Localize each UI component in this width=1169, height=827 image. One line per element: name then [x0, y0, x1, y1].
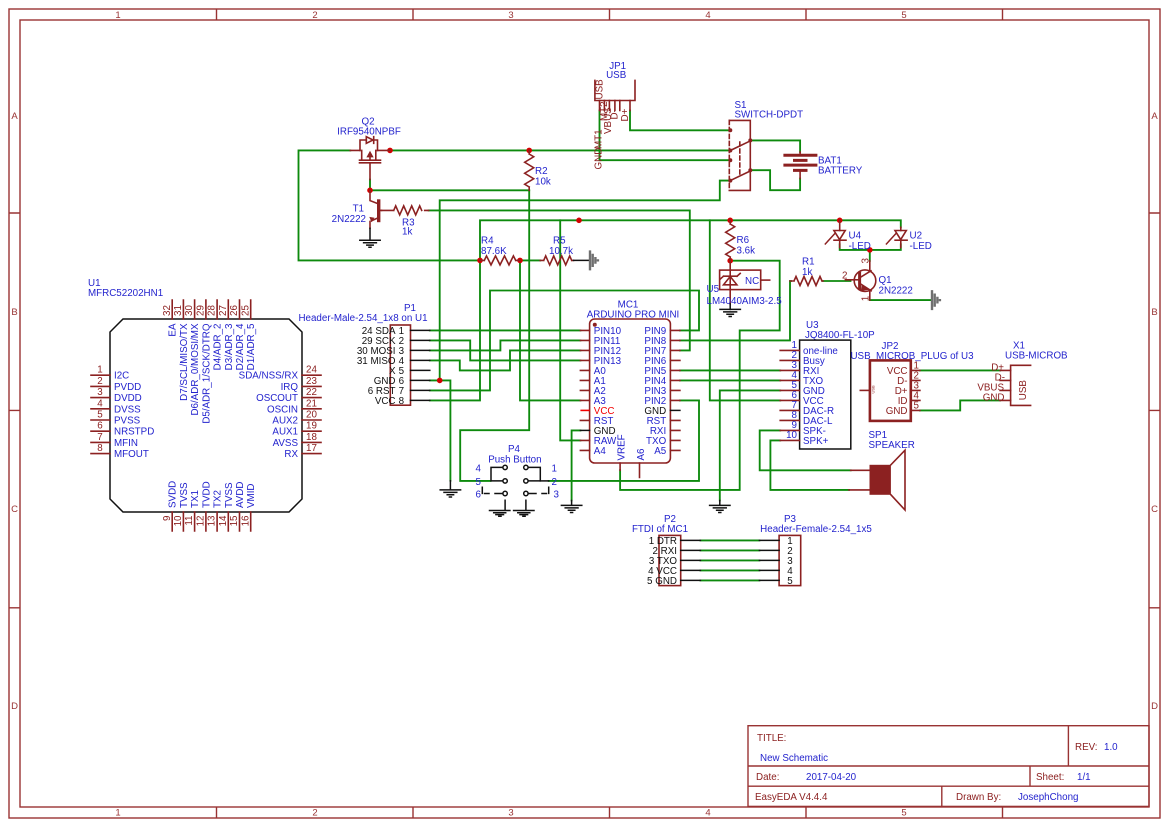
svg-text:VMID: VMID: [246, 484, 257, 509]
svg-text:U5: U5: [707, 284, 720, 295]
svg-text:I2C: I2C: [114, 371, 129, 382]
svg-text:2017-04-20: 2017-04-20: [806, 772, 857, 783]
svg-text:9: 9: [162, 516, 173, 521]
wire MC1 PIN2 to P4 pin2: [549, 400, 699, 481]
wire Q1 collector stub: [869, 250, 871, 261]
svg-text:26: 26: [229, 305, 240, 316]
transistor Q1 2N2222 (NPN): [842, 258, 913, 302]
resistor R3 1k: [382, 206, 429, 238]
wire VCC-Q2 left rail: [299, 150, 481, 260]
svg-text:Push Button: Push Button: [488, 455, 541, 466]
svg-text:14: 14: [218, 515, 229, 526]
svg-text:IRQ: IRQ: [281, 382, 299, 393]
svg-text:27: 27: [218, 305, 229, 316]
svg-text:12: 12: [196, 516, 207, 527]
title block: [748, 726, 1149, 807]
svg-text:DVSS: DVSS: [114, 404, 141, 415]
svg-text:4: 4: [705, 808, 710, 819]
wire JP2 GND to X1 GND: [920, 400, 1000, 410]
svg-text:Sheet:: Sheet:: [1036, 772, 1064, 783]
node Q2 drain: [387, 148, 393, 154]
MC1 GND right stub black: [670, 409, 680, 411]
svg-text:87.6K: 87.6K: [481, 246, 507, 257]
svg-text:PVSS: PVSS: [114, 416, 141, 427]
svg-text:USB: USB: [871, 385, 876, 394]
svg-text:20: 20: [306, 410, 317, 421]
node U4 anode: [837, 218, 843, 224]
module MC1 ARDUINO PRO MINI: [580, 300, 680, 478]
wire VCC rail y220: [430, 220, 901, 400]
svg-text:10k: 10k: [535, 177, 551, 188]
svg-text:Q1: Q1: [879, 275, 892, 286]
svg-text:SVDD: SVDD: [168, 481, 179, 508]
svg-text:28: 28: [207, 305, 218, 316]
svg-text:2: 2: [552, 477, 557, 488]
svg-text:31: 31: [173, 305, 184, 316]
svg-text:SPEAKER: SPEAKER: [869, 440, 915, 451]
svg-text:D5/ADR_1/SCK/DTRQ: D5/ADR_1/SCK/DTRQ: [201, 323, 212, 424]
svg-text:TVSS: TVSS: [179, 482, 190, 508]
svg-text:4: 4: [705, 10, 710, 21]
svg-text:5: 5: [97, 410, 103, 421]
svg-text:5: 5: [787, 576, 793, 587]
svg-text:16: 16: [240, 515, 251, 526]
wire VCC rail to MC1 RAW: [560, 220, 580, 440]
svg-text:A: A: [1151, 111, 1158, 122]
svg-text:SPK+: SPK+: [803, 436, 829, 447]
svg-text:NC: NC: [745, 276, 759, 287]
svg-text:GND: GND: [594, 148, 605, 170]
svg-text:1: 1: [860, 296, 871, 301]
svg-text:10: 10: [786, 430, 797, 441]
svg-text:VCC: VCC: [594, 406, 615, 417]
svg-text:SWITCH-DPDT: SWITCH-DPDT: [735, 110, 804, 121]
svg-text:DVDD: DVDD: [114, 393, 142, 404]
transistor T1 2N2222 (NPN): [332, 190, 382, 228]
ground at P1 GND wire: [440, 481, 460, 497]
svg-text:USB-MICROB: USB-MICROB: [1005, 351, 1068, 362]
svg-text:7: 7: [97, 432, 102, 443]
svg-text:1/1: 1/1: [1077, 772, 1091, 783]
svg-text:T1: T1: [353, 204, 364, 215]
wire P1 GND junction: [430, 380, 451, 480]
ground (signal, gray) right of Q1: [932, 290, 940, 310]
wire P2-P3 rows: [700, 540, 759, 580]
svg-text:REV:: REV:: [1075, 742, 1098, 753]
svg-text:NRSTPD: NRSTPD: [114, 427, 154, 438]
svg-text:EA: EA: [168, 323, 179, 337]
svg-text:29: 29: [196, 305, 207, 316]
node P1 GND: [437, 378, 443, 384]
wire U3 SPK+ to speaker: [770, 440, 849, 490]
node VCC rail dot: [576, 218, 582, 224]
wire P1 SDA to MC1 PIN10: [430, 329, 581, 331]
svg-text:R4: R4: [481, 236, 494, 247]
node R4 right A3: [517, 258, 523, 264]
svg-text:Date:: Date:: [756, 772, 779, 783]
svg-text:U2: U2: [910, 231, 923, 242]
svg-text:MFOUT: MFOUT: [114, 449, 149, 460]
svg-text:2: 2: [312, 10, 317, 21]
wire Q2 drain to S1 rail y150: [390, 149, 729, 151]
ground below P4 left: [490, 500, 510, 516]
node Q2 gate / T1 collector: [367, 188, 373, 194]
svg-text:3: 3: [861, 258, 872, 264]
svg-text:Header-Male-2.54_1x8 on U1: Header-Male-2.54_1x8 on U1: [298, 313, 427, 324]
svg-text:3: 3: [508, 10, 513, 21]
wire JP2 VCC to X1 D+: [920, 369, 1000, 371]
wire JP1 D+ to S1: [630, 111, 729, 131]
svg-text:2: 2: [97, 376, 102, 387]
wire U5 ref to MC1 VREF: [620, 261, 780, 490]
svg-text:32: 32: [162, 305, 173, 316]
svg-text:23: 23: [306, 376, 317, 387]
svg-text:B: B: [11, 307, 17, 318]
speaker SP1: [849, 430, 915, 510]
svg-text:R1: R1: [802, 257, 815, 268]
frame column numbers bottom: [115, 808, 906, 819]
IC U1 MFRC52202HN1: [88, 278, 321, 531]
svg-text:1.0: 1.0: [1104, 742, 1118, 753]
transistor Q2 IRF9540NPBF (P-MOSFET): [337, 117, 401, 180]
svg-text:17: 17: [306, 443, 317, 454]
svg-text:VCC: VCC: [375, 396, 396, 407]
svg-text:6: 6: [97, 421, 103, 432]
wire R3 base line to MC1 PIN7: [429, 210, 690, 350]
svg-text:3.6k: 3.6k: [737, 246, 756, 257]
wire MC1 GND left to ground: [572, 430, 581, 500]
svg-text:RX: RX: [284, 449, 298, 460]
header P3 Header-Female-2.54_1x5: [759, 514, 872, 587]
svg-text:AUX2: AUX2: [272, 416, 298, 427]
svg-text:D1/ADR_5: D1/ADR_5: [246, 323, 257, 370]
svg-text:A6: A6: [636, 448, 647, 461]
wire MC1 PIN4 to U3 TXO: [680, 379, 780, 381]
svg-text:A: A: [11, 111, 18, 122]
svg-text:TVDD: TVDD: [201, 481, 212, 508]
ground at T1 emitter: [360, 228, 380, 247]
wire R2 bottom down to P4 pin5: [460, 190, 529, 481]
svg-text:PVDD: PVDD: [114, 382, 141, 393]
svg-text:GND: GND: [594, 426, 616, 437]
svg-text:1: 1: [115, 808, 120, 819]
svg-text:B: B: [1151, 307, 1157, 318]
svg-text:R5: R5: [553, 236, 566, 247]
svg-text:MFRC52202HN1: MFRC52202HN1: [88, 288, 163, 299]
resistor R6 3.6k: [726, 220, 755, 260]
svg-text:10: 10: [173, 515, 184, 526]
connector JP1 USB: [594, 61, 636, 170]
svg-text:5 GND: 5 GND: [647, 576, 677, 587]
svg-text:3: 3: [97, 387, 103, 398]
svg-text:TX2: TX2: [213, 490, 224, 508]
svg-text:FTDI of MC1: FTDI of MC1: [632, 524, 688, 535]
svg-text:JQ8400-FL-10P: JQ8400-FL-10P: [805, 330, 875, 341]
ground (signal, gray) right of R5: [590, 250, 598, 270]
svg-text:1k: 1k: [802, 267, 812, 278]
svg-text:AVDD: AVDD: [235, 482, 246, 509]
MC1 bottom pins VREF A6: [620, 463, 639, 478]
svg-text:2N2222: 2N2222: [879, 286, 913, 297]
header P1 Header-Male-2.54_1x8 on U1: [298, 303, 429, 407]
svg-text:1k: 1k: [402, 227, 412, 238]
frame left ticks: [9, 213, 20, 608]
svg-text:D: D: [11, 701, 18, 712]
svg-text:TX1: TX1: [190, 490, 201, 508]
node R4 left: [477, 258, 483, 264]
battery BAT1: [785, 152, 863, 179]
svg-text:5: 5: [901, 10, 906, 21]
resistor R2 10k: [525, 150, 551, 190]
LED U4: [825, 220, 871, 252]
svg-text:D: D: [1151, 701, 1158, 712]
svg-text:22: 22: [306, 387, 317, 398]
svg-text:R2: R2: [535, 166, 548, 177]
svg-text:LM4040AIM3-2.5: LM4040AIM3-2.5: [707, 296, 783, 307]
node R6 top VCC: [727, 218, 733, 224]
svg-text:1: 1: [115, 10, 120, 21]
svg-text:JosephChong: JosephChong: [1018, 792, 1078, 803]
svg-text:TITLE:: TITLE:: [757, 733, 786, 744]
svg-text:Drawn By:: Drawn By:: [956, 792, 1001, 803]
frame right ticks: [1149, 213, 1160, 608]
svg-text:10.7k: 10.7k: [549, 246, 573, 257]
ground at U3 GND wire: [710, 501, 730, 513]
svg-text:IRF9540NPBF: IRF9540NPBF: [337, 127, 401, 138]
svg-text:A4: A4: [594, 446, 607, 457]
node R2 top: [526, 148, 532, 154]
svg-text:New Schematic: New Schematic: [760, 753, 828, 764]
MC1 left pin stubs: [580, 330, 589, 450]
wire P1 RST to MC1 PIN9: [430, 291, 699, 391]
svg-text:1: 1: [97, 365, 102, 376]
svg-text:8: 8: [399, 396, 405, 407]
node LED cathodes Q1: [867, 247, 873, 253]
svg-text:D3/ADR_3: D3/ADR_3: [224, 323, 235, 370]
U1 top pins 32-25: [172, 300, 251, 319]
frame column numbers top: [115, 10, 906, 21]
svg-text:AVSS: AVSS: [273, 438, 299, 449]
connector X1 USB-MICROB: [977, 341, 1068, 406]
svg-text:13: 13: [207, 515, 218, 526]
connector JP2 USB_MICROB_PLUG of U3: [850, 341, 974, 421]
frame top ticks: [217, 9, 1003, 20]
frame row letters right: [1151, 111, 1158, 712]
svg-text:24: 24: [306, 365, 317, 376]
wire VCC rail to U3 VCC: [710, 220, 780, 400]
U1 left pins 1-8: [91, 375, 110, 453]
svg-text:D-: D-: [610, 109, 621, 119]
LED U2: [886, 227, 931, 252]
IC U3 JQ8400-FL-10P: [780, 320, 875, 449]
ground below U5: [720, 304, 740, 317]
svg-text:15: 15: [229, 515, 240, 526]
resistor R5 10.7k: [540, 236, 573, 265]
resistor R4 87.6K: [480, 236, 520, 265]
svg-text:25: 25: [240, 305, 251, 316]
node R6 bottom U5: [727, 258, 733, 264]
svg-text:EasyEDA V4.4.4: EasyEDA V4.4.4: [755, 792, 828, 803]
svg-text:-LED: -LED: [849, 241, 871, 252]
wire S1 throw2 to battery bottom: [751, 170, 800, 190]
svg-text:6: 6: [476, 490, 482, 501]
svg-text:OSCOUT: OSCOUT: [256, 393, 298, 404]
wire LED cathode rail: [840, 244, 901, 250]
svg-text:BATTERY: BATTERY: [818, 166, 863, 177]
ground at MC1 GND wire: [561, 501, 581, 513]
wire R1 left to MC1 PIN8: [680, 281, 791, 340]
wire U3 SPK- to speaker: [760, 430, 851, 470]
svg-text:21: 21: [306, 398, 317, 409]
resistor R1 1k: [790, 257, 823, 286]
svg-text:5: 5: [914, 400, 920, 411]
ground below P4 right: [514, 500, 534, 516]
svg-text:18: 18: [306, 432, 317, 443]
svg-text:P4: P4: [508, 444, 521, 455]
svg-text:OSCIN: OSCIN: [267, 404, 298, 415]
svg-text:D4/ADR_2: D4/ADR_2: [213, 324, 224, 371]
MC1 GND left stub black: [580, 429, 589, 431]
svg-text:1: 1: [552, 464, 557, 475]
svg-text:VREF: VREF: [616, 434, 627, 460]
svg-text:8: 8: [97, 443, 103, 454]
svg-text:SDA/NSS/RX: SDA/NSS/RX: [239, 371, 299, 382]
svg-text:AUX1: AUX1: [272, 427, 298, 438]
svg-text:3: 3: [508, 808, 513, 819]
wire MC1 PIN5 to U3 RXI: [680, 369, 780, 371]
svg-text:D6/ADR_0/MOSI/MX: D6/ADR_0/MOSI/MX: [190, 323, 201, 415]
svg-text:C: C: [11, 504, 18, 515]
svg-text:USB: USB: [595, 79, 606, 100]
wire Q1 emitter to ground: [870, 299, 931, 301]
svg-text:A5: A5: [654, 446, 667, 457]
svg-text:-LED: -LED: [910, 241, 932, 252]
wire R1 right to Q1 base: [823, 280, 851, 282]
wire U3 GND to ground: [720, 390, 780, 500]
svg-text:GND: GND: [983, 392, 1005, 403]
svg-text:D+: D+: [620, 108, 631, 121]
U1 right pins 24-17: [302, 375, 321, 453]
svg-text:C: C: [1151, 504, 1158, 515]
MC1 VCC stub red: [580, 409, 589, 411]
wire R4R5 node to MC1 A3: [520, 260, 580, 400]
svg-text:5: 5: [476, 477, 482, 488]
svg-text:USB: USB: [1018, 380, 1029, 401]
svg-text:11: 11: [184, 516, 195, 526]
wire Q2 gate node to R2 bottom: [370, 180, 529, 191]
wire JP1 GND to S1: [600, 111, 730, 161]
frame row letters left: [11, 111, 18, 712]
header P2 FTDI of MC1: [632, 514, 700, 587]
wire R5 to gray ground: [574, 259, 590, 261]
svg-text:19: 19: [306, 421, 317, 432]
svg-text:MFIN: MFIN: [114, 438, 138, 449]
svg-text:3: 3: [554, 490, 560, 501]
svg-text:TVSS: TVSS: [224, 482, 235, 508]
diode U5 LM4040AIM3-2.5: [707, 261, 783, 307]
wire GND line S1 bottom contact: [440, 181, 730, 381]
pushbutton P4: [476, 444, 560, 516]
U1 bottom pins 9-16: [172, 512, 251, 531]
svg-text:4: 4: [97, 398, 103, 409]
svg-text:USB: USB: [606, 70, 627, 81]
svg-text:2N2222: 2N2222: [332, 214, 366, 225]
svg-text:4: 4: [476, 464, 482, 475]
svg-text:2: 2: [842, 271, 847, 282]
wire P1 MISO to MC1 PIN12: [430, 350, 581, 370]
svg-text:R6: R6: [737, 235, 750, 246]
svg-text:U4: U4: [849, 231, 862, 242]
svg-text:30: 30: [184, 305, 195, 316]
switch S1 SWITCH-DPDT: [728, 100, 803, 190]
wire P1 SCK to MC1 PIN13: [430, 340, 581, 360]
wire P1 MOSI to MC1 PIN11: [430, 340, 581, 350]
junction dots: [367, 148, 872, 384]
wire S1 throw1 to battery top: [751, 140, 800, 152]
svg-text:D7/SCL/MISO/TX: D7/SCL/MISO/TX: [179, 323, 190, 401]
svg-text:Header-Female-2.54_1x5: Header-Female-2.54_1x5: [760, 524, 872, 535]
MC1 right pin stubs: [670, 330, 680, 450]
frame bottom ticks: [217, 807, 1003, 818]
svg-text:D2/ADR_4: D2/ADR_4: [235, 323, 246, 370]
svg-text:GND: GND: [644, 406, 666, 417]
svg-text:2: 2: [312, 808, 317, 819]
svg-text:5: 5: [901, 808, 906, 819]
svg-text:GND: GND: [886, 406, 908, 417]
wire R5 mid segment: [520, 259, 540, 261]
MC1 pin1 dot: [593, 323, 597, 327]
